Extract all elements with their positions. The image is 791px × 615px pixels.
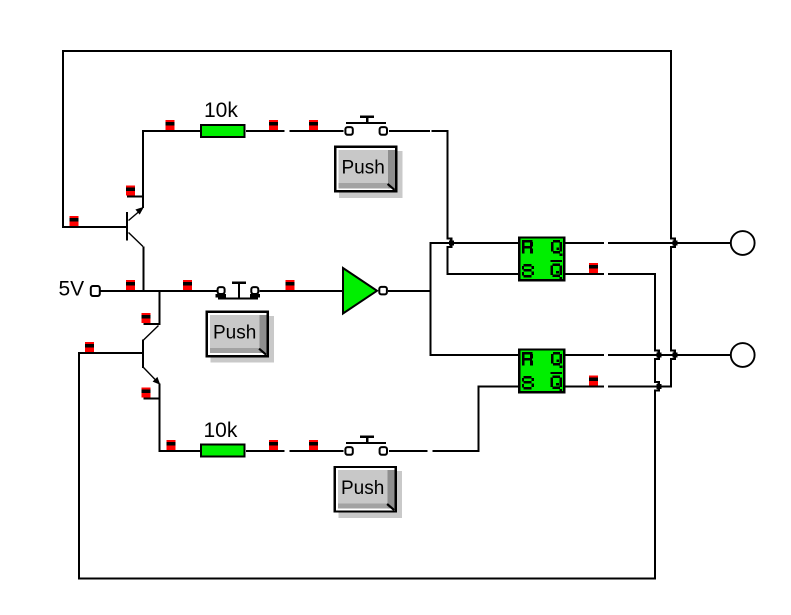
svg-text:10k: 10k	[204, 419, 238, 442]
svg-text:5V: 5V	[59, 278, 85, 301]
svg-text:Push: Push	[213, 323, 256, 344]
svg-text:10k: 10k	[204, 99, 238, 122]
svg-text:Push: Push	[342, 158, 385, 179]
svg-text:Push: Push	[341, 478, 384, 499]
